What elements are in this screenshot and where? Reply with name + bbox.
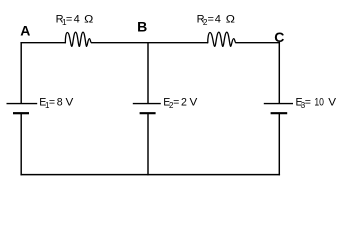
wire: right branch C down to battery [278, 42, 280, 104]
wire: right branch battery to bottom bus [278, 113, 280, 175]
wire: left branch A down to battery [20, 42, 22, 104]
svg-text:E2=2V: E2=2V [163, 96, 198, 110]
battery E1 [7, 104, 38, 114]
svg-text:A: A [20, 23, 30, 39]
wire: middle branch B down to battery [147, 42, 149, 104]
svg-text:E3=10V: E3=10V [296, 96, 338, 110]
svg-text:B: B [137, 19, 147, 35]
resistor R2 [208, 32, 236, 46]
wire: left branch battery to bottom bus [20, 113, 22, 175]
svg-text:R2=4Ω: R2=4Ω [197, 13, 235, 27]
battery E2 [133, 104, 161, 114]
wire top bus: R2 to C [235, 42, 280, 44]
wire: bottom bus [20, 174, 280, 176]
battery E3 [264, 104, 293, 114]
wire top bus: R1 to R2 through node B [91, 42, 208, 44]
resistor R1 [65, 32, 91, 46]
wire: middle branch battery to bottom bus [147, 113, 149, 175]
wire top bus: A to R1 [20, 42, 65, 44]
svg-text:E1=8V: E1=8V [39, 96, 74, 110]
svg-text:R1=4Ω: R1=4Ω [56, 13, 94, 27]
